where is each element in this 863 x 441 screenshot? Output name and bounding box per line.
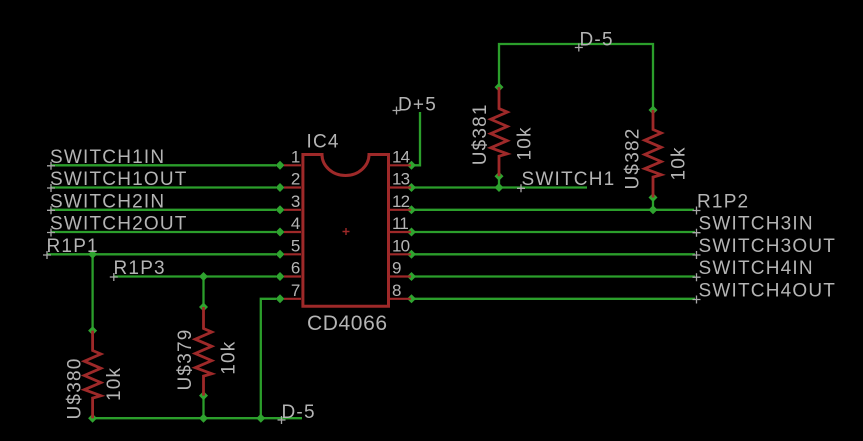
svg-text:10k: 10k (514, 126, 535, 160)
svg-text:10k: 10k (104, 367, 125, 401)
svg-text:4: 4 (291, 214, 300, 233)
svg-text:3: 3 (291, 192, 300, 211)
svg-text:SWITCH3IN: SWITCH3IN (699, 214, 814, 235)
svg-text:9: 9 (392, 259, 401, 278)
svg-text:R1P1: R1P1 (47, 236, 99, 257)
svg-text:5: 5 (291, 237, 300, 256)
svg-text:IC4: IC4 (307, 132, 340, 153)
svg-text:SWITCH4IN: SWITCH4IN (699, 258, 814, 279)
svg-text:2: 2 (291, 170, 300, 189)
svg-text:R1P3: R1P3 (114, 258, 166, 279)
svg-text:7: 7 (291, 281, 300, 300)
svg-text:U$381: U$381 (470, 103, 491, 165)
svg-text:U$379: U$379 (175, 329, 196, 391)
svg-text:CD4066: CD4066 (307, 312, 388, 335)
svg-text:12: 12 (392, 192, 410, 211)
svg-text:10: 10 (392, 237, 410, 256)
svg-text:D+5: D+5 (398, 95, 437, 116)
svg-text:SWITCH2OUT: SWITCH2OUT (50, 214, 188, 235)
svg-text:SWITCH2IN: SWITCH2IN (50, 192, 165, 213)
svg-text:1: 1 (291, 148, 300, 167)
svg-text:10k: 10k (219, 341, 240, 375)
svg-text:10k: 10k (669, 146, 690, 180)
svg-text:SWITCH1OUT: SWITCH1OUT (50, 169, 188, 190)
svg-text:14: 14 (392, 148, 410, 167)
svg-text:SWITCH1: SWITCH1 (522, 169, 616, 190)
svg-text:11: 11 (392, 214, 408, 233)
svg-text:SWITCH3OUT: SWITCH3OUT (699, 236, 837, 257)
svg-text:13: 13 (392, 170, 410, 189)
svg-text:U$380: U$380 (65, 358, 86, 420)
svg-text:U$382: U$382 (623, 128, 644, 190)
svg-text:SWITCH4OUT: SWITCH4OUT (699, 280, 837, 301)
svg-text:8: 8 (392, 281, 401, 300)
svg-text:D-5: D-5 (282, 402, 316, 423)
svg-text:D-5: D-5 (580, 30, 614, 51)
svg-text:R1P2: R1P2 (697, 192, 749, 213)
svg-text:6: 6 (291, 259, 300, 278)
svg-text:SWITCH1IN: SWITCH1IN (50, 147, 165, 168)
